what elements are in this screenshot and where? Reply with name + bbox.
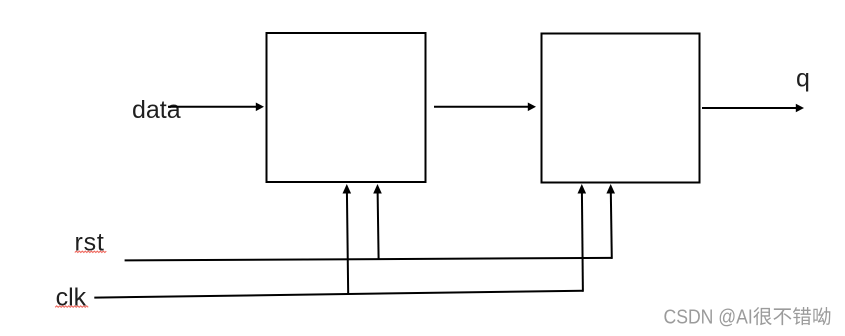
wire FF1 to FF2 [434,106,529,108]
svg-text:CSDN @AI: CSDN @AI [664,307,753,329]
arrowhead data input [256,103,264,112]
arrowhead rst FF1 [373,184,382,194]
spellcheck squiggle clk [55,306,88,307]
arrowhead clk FF1 [343,184,352,194]
flip-flop box FF1 [267,33,426,182]
wire data input [168,106,257,108]
arrowhead FF1 to FF2 [528,103,536,112]
wire clk net horizontal [94,291,583,298]
svg-text:q: q [796,65,810,93]
arrowhead clk FF2 [578,184,587,194]
wire rst net horizontal [125,258,612,261]
watermark CSDN [664,307,831,329]
arrowhead q output [796,104,804,113]
spellcheck squiggle rst [75,251,107,252]
wire clk to FF1 vertical [347,191,348,295]
wire rst to FF1 vertical [378,191,379,259]
wire q output [702,107,797,109]
arrowhead rst FF2 [606,184,615,194]
svg-text:data: data [132,96,181,124]
wire clk to FF2 vertical [582,191,583,292]
wire rst to FF2 vertical [611,191,612,259]
flip-flop box FF2 [542,34,700,183]
